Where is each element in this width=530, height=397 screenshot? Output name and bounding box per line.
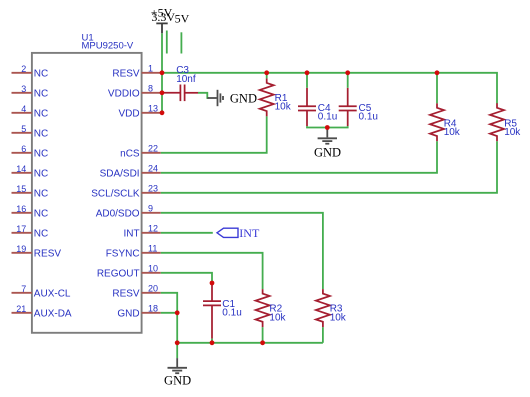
wire R2 bottom bbox=[262, 327, 264, 343]
svg-text:22: 22 bbox=[148, 143, 158, 153]
pin 10 bbox=[142, 272, 161, 274]
wire down to bottom rail bbox=[176, 313, 178, 343]
svg-text:AD0/SDO: AD0/SDO bbox=[96, 208, 140, 219]
svg-text:RESV: RESV bbox=[34, 248, 62, 259]
wire R4 bottom to SDA bbox=[161, 141, 437, 173]
pin 19 bbox=[12, 252, 32, 254]
pin 13 bbox=[142, 112, 162, 114]
svg-text:SCL/SCLK: SCL/SCLK bbox=[91, 188, 140, 199]
svg-text:0.1u: 0.1u bbox=[222, 307, 241, 318]
pin 11 bbox=[142, 252, 161, 254]
wire R5 bottom to SCL bbox=[161, 141, 497, 193]
svg-text:8: 8 bbox=[148, 83, 153, 93]
svg-text:NC: NC bbox=[34, 228, 48, 239]
right pin numbers bbox=[148, 63, 158, 313]
svg-text:2: 2 bbox=[21, 64, 26, 74]
left pin names bbox=[34, 68, 72, 319]
svg-text:1: 1 bbox=[148, 63, 153, 73]
wire +5V stem down to pin 13 bbox=[161, 33, 163, 113]
node rail left bbox=[175, 340, 180, 345]
pin 8 bbox=[142, 92, 162, 94]
node R2 bottom bbox=[260, 340, 265, 345]
svg-text:11: 11 bbox=[148, 243, 157, 253]
svg-text:5V: 5V bbox=[175, 12, 190, 26]
svg-text:RESV: RESV bbox=[112, 288, 140, 299]
node GND mid bbox=[325, 125, 330, 130]
svg-text:REGOUT: REGOUT bbox=[97, 268, 140, 279]
wire 5V stub bbox=[180, 32, 182, 53]
resistor R4 bbox=[430, 103, 444, 141]
wire R3 bottom bbox=[322, 327, 324, 343]
IC U1 MPU9250-V body bbox=[32, 53, 142, 333]
svg-text:INT: INT bbox=[239, 226, 260, 240]
node pin1/+5V bbox=[160, 70, 165, 75]
svg-text:GND: GND bbox=[314, 145, 341, 159]
svg-text:SDA/SDI: SDA/SDI bbox=[100, 168, 140, 179]
left pin numbers bbox=[16, 64, 26, 314]
pin 21 bbox=[12, 312, 32, 314]
svg-text:VDD: VDD bbox=[118, 108, 139, 119]
svg-text:10k: 10k bbox=[275, 102, 292, 113]
pin 1 bbox=[142, 72, 162, 74]
pin 5 bbox=[12, 132, 32, 134]
pin 24 bbox=[142, 172, 161, 174]
ground (sideways) near C3 bbox=[207, 90, 223, 106]
svg-text:9: 9 bbox=[148, 203, 153, 213]
svg-text:6: 6 bbox=[21, 144, 26, 154]
wire C4/C5 bottoms bbox=[307, 126, 348, 127]
svg-text:10nf: 10nf bbox=[176, 74, 196, 85]
svg-text:INT: INT bbox=[123, 228, 139, 239]
wire C3 to GND bbox=[198, 93, 209, 98]
svg-text:18: 18 bbox=[148, 303, 158, 313]
ground under C4/C5 bbox=[318, 128, 337, 144]
svg-text:NC: NC bbox=[34, 168, 48, 179]
capacitor C3 bbox=[162, 85, 198, 102]
wire GND stub bbox=[176, 343, 178, 358]
right pin names bbox=[91, 68, 140, 319]
svg-text:10: 10 bbox=[148, 263, 158, 273]
svg-text:MPU9250-V: MPU9250-V bbox=[82, 41, 134, 52]
wire RESV top rail bbox=[162, 73, 497, 104]
pin 17 bbox=[12, 232, 32, 234]
wire REGOUT down to C1 bbox=[161, 273, 212, 283]
wire RESV pin20 down bbox=[161, 293, 177, 313]
pin 16 bbox=[12, 212, 32, 214]
wire R1 top bbox=[266, 73, 268, 79]
svg-text:15: 15 bbox=[16, 184, 26, 194]
node pin13/+5V bbox=[160, 110, 165, 115]
wire GND pin18 bbox=[161, 312, 177, 314]
svg-text:21: 21 bbox=[16, 304, 26, 314]
svg-text:3: 3 bbox=[21, 84, 26, 94]
svg-text:16: 16 bbox=[16, 204, 26, 214]
node R4 top bbox=[435, 70, 440, 75]
svg-text:10k: 10k bbox=[269, 312, 286, 323]
right pin stubs bbox=[142, 73, 162, 313]
svg-text:0.1u: 0.1u bbox=[359, 111, 378, 122]
wire FSYNC to R2 top bbox=[161, 253, 263, 289]
svg-text:VDDIO: VDDIO bbox=[108, 88, 140, 99]
svg-text:FSYNC: FSYNC bbox=[106, 248, 140, 259]
svg-text:NC: NC bbox=[34, 188, 48, 199]
svg-text:10k: 10k bbox=[444, 127, 461, 138]
wire R1 bottom to nCS bbox=[161, 116, 267, 152]
wire R4 top bbox=[436, 73, 438, 104]
capacitor C4 bbox=[298, 88, 316, 126]
resistor R5 bbox=[490, 103, 504, 141]
svg-text:GND: GND bbox=[164, 374, 191, 388]
svg-text:24: 24 bbox=[148, 163, 158, 173]
left pin stubs bbox=[12, 73, 32, 313]
pin 2 bbox=[12, 72, 32, 74]
wire C5 top bbox=[347, 73, 349, 88]
svg-text:NC: NC bbox=[34, 108, 48, 119]
pin 4 bbox=[12, 112, 32, 114]
svg-text:5: 5 bbox=[21, 124, 26, 134]
svg-text:NC: NC bbox=[34, 68, 48, 79]
power symbol +5V bar bbox=[156, 23, 167, 33]
wire 3.3V stub bbox=[166, 31, 168, 54]
svg-text:10k: 10k bbox=[504, 127, 521, 138]
pin 20 bbox=[142, 292, 161, 294]
svg-text:14: 14 bbox=[16, 164, 26, 174]
svg-text:19: 19 bbox=[16, 244, 26, 254]
pin 23 bbox=[142, 192, 161, 194]
svg-text:NC: NC bbox=[34, 128, 48, 139]
node C5 top bbox=[345, 70, 350, 75]
pin 3 bbox=[12, 92, 32, 94]
pin 7 bbox=[12, 292, 32, 294]
node pin8/+5V bbox=[160, 90, 165, 95]
net flag INT bbox=[217, 228, 238, 237]
wire C1 bottom bbox=[211, 339, 213, 343]
svg-text:10k: 10k bbox=[330, 312, 347, 323]
svg-text:NC: NC bbox=[34, 88, 48, 99]
node C4 top bbox=[305, 70, 310, 75]
pin 9 bbox=[142, 212, 161, 214]
node R1 top bbox=[264, 70, 269, 75]
svg-text:AUX-DA: AUX-DA bbox=[34, 308, 72, 319]
wire INT bbox=[161, 232, 213, 234]
pin 15 bbox=[12, 192, 32, 194]
svg-text:3.3V: 3.3V bbox=[151, 10, 175, 24]
wire bottom rail bbox=[177, 342, 323, 344]
svg-text:4: 4 bbox=[21, 104, 26, 114]
pin 12 bbox=[142, 232, 161, 234]
svg-text:NC: NC bbox=[34, 148, 48, 159]
svg-text:7: 7 bbox=[21, 284, 26, 294]
resistor R1 bbox=[260, 78, 274, 116]
resistor R3 bbox=[316, 289, 330, 327]
capacitor C1 bbox=[203, 283, 221, 339]
resistor R2 bbox=[256, 289, 270, 327]
node pin18/pin20 bbox=[175, 310, 180, 315]
pin 14 bbox=[12, 172, 32, 174]
svg-text:23: 23 bbox=[148, 183, 158, 193]
svg-text:GND: GND bbox=[117, 308, 139, 319]
node C1 top bbox=[210, 281, 215, 286]
pin 18 bbox=[142, 312, 161, 314]
node C1 bottom bbox=[210, 340, 215, 345]
svg-text:20: 20 bbox=[148, 283, 158, 293]
svg-text:GND: GND bbox=[230, 91, 257, 105]
svg-text:12: 12 bbox=[148, 223, 158, 233]
wire C4 top bbox=[306, 73, 308, 88]
svg-text:AUX-CL: AUX-CL bbox=[34, 288, 71, 299]
pin 6 bbox=[12, 152, 32, 154]
svg-text:RESV: RESV bbox=[112, 68, 140, 79]
svg-text:0.1u: 0.1u bbox=[318, 111, 337, 122]
svg-text:17: 17 bbox=[16, 224, 26, 234]
capacitor C5 bbox=[339, 88, 357, 126]
pin 22 bbox=[142, 152, 161, 154]
svg-text:13: 13 bbox=[148, 103, 158, 113]
ground (bottom) bbox=[168, 358, 188, 373]
wire AD0/SDO to R3 top bbox=[161, 213, 323, 289]
svg-text:nCS: nCS bbox=[120, 148, 140, 159]
svg-text:NC: NC bbox=[34, 208, 48, 219]
